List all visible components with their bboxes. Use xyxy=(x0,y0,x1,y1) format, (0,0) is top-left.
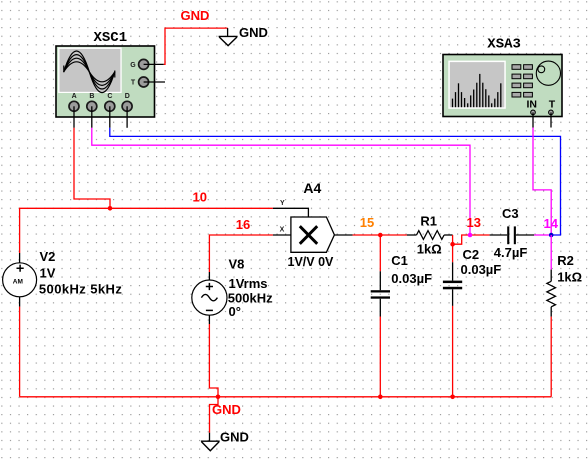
svg-text:GND: GND xyxy=(239,25,268,40)
wire net16: V8 to X input xyxy=(209,235,273,272)
wire lead R1 left xyxy=(407,234,417,236)
svg-text:AM: AM xyxy=(13,278,23,285)
svg-text:GND: GND xyxy=(220,429,249,444)
svg-text:500kHz 5kHz: 500kHz 5kHz xyxy=(39,282,122,297)
wire lead C2 top xyxy=(452,262,454,280)
wire net14: C3 to node 14 xyxy=(534,234,551,236)
svg-text:B: B xyxy=(89,93,94,100)
wire stub bottom ground xyxy=(209,433,211,442)
node 14 junction xyxy=(549,233,554,238)
ground (bottom) xyxy=(201,441,220,451)
AM source V2 xyxy=(3,249,123,297)
wire lead C1 bottom xyxy=(379,299,381,317)
svg-text:C2: C2 xyxy=(463,247,480,262)
svg-text:A4: A4 xyxy=(303,180,321,196)
svg-text:D: D xyxy=(125,93,130,100)
svg-text:R1: R1 xyxy=(420,213,437,228)
svg-text:0.03µF: 0.03µF xyxy=(461,262,502,277)
svg-text:16: 16 xyxy=(236,217,250,232)
wire stub XSA3 IN xyxy=(532,112,534,127)
wire net0: bottom rail xyxy=(20,396,552,398)
wire net0: V8 bottom to rail xyxy=(209,324,218,397)
wire net13: R1 jog to node 13 and C3 xyxy=(453,235,490,244)
svg-text:4.7µF: 4.7µF xyxy=(494,245,528,260)
wire lead C3 left xyxy=(490,234,508,236)
node junction rail C2 xyxy=(450,395,455,400)
node junction net10 xyxy=(108,206,113,211)
wire lead R1 right xyxy=(444,234,453,236)
wire lead R2 top xyxy=(550,270,552,282)
wire net0: V2 bottom to rail xyxy=(19,307,21,397)
wire stub V2 bottom xyxy=(19,297,21,307)
svg-text:GND: GND xyxy=(212,402,241,417)
svg-text:10: 10 xyxy=(193,189,207,204)
capacitor C1 xyxy=(371,253,432,299)
svg-text:T: T xyxy=(549,99,556,111)
svg-text:G: G xyxy=(130,62,136,69)
wire net10 main: V2 to Y lead xyxy=(20,208,273,253)
svg-text:0.03µF: 0.03µF xyxy=(391,271,432,286)
svg-text:V2: V2 xyxy=(40,249,56,264)
node 13 junction xyxy=(468,233,473,238)
svg-text:T: T xyxy=(131,80,136,87)
wire net0: C1 to rail xyxy=(379,317,381,397)
wire net14: node 14 to R2 xyxy=(550,235,552,270)
wire net15: C1 branch xyxy=(379,235,381,271)
svg-text:1Vrms: 1Vrms xyxy=(229,276,268,291)
wire net0: R2 to rail xyxy=(550,317,552,397)
wire net13 magenta: scope B to node 13 xyxy=(92,128,470,235)
svg-text:1V: 1V xyxy=(40,266,56,281)
svg-text:IN: IN xyxy=(527,99,538,111)
wire net0: C2 to rail xyxy=(452,306,454,397)
wire net14 magenta: XSA3 IN to node 14 xyxy=(533,128,551,236)
wire lead C3 right xyxy=(516,234,534,236)
svg-text:0°: 0° xyxy=(229,304,241,319)
oscilloscope XSC1 xyxy=(56,30,155,117)
svg-text:GND: GND xyxy=(181,8,210,23)
wire net10 red: G to top ground xyxy=(164,28,228,64)
wire net14 blue: scope C to node 14 xyxy=(110,128,561,235)
ground (top) xyxy=(219,36,238,45)
wire lead A4 output xyxy=(334,234,352,236)
wire lead A4 X xyxy=(273,234,291,236)
svg-text:1V/V 0V: 1V/V 0V xyxy=(288,255,335,269)
multiplier A4 xyxy=(280,180,335,269)
svg-text:14: 14 xyxy=(544,216,559,231)
capacitor C2 xyxy=(443,247,501,289)
svg-text:1kΩ: 1kΩ xyxy=(417,242,442,257)
spectrum analyzer XSA3 xyxy=(443,37,562,117)
wire stub scope G xyxy=(144,63,164,65)
node junction C2 tap xyxy=(450,242,455,247)
wire stub V2 top xyxy=(19,253,21,263)
AC source V8 xyxy=(192,257,273,320)
wire net0: rail to bottom ground xyxy=(210,397,219,433)
wire stub top ground xyxy=(227,28,229,36)
svg-text:V8: V8 xyxy=(229,257,245,272)
wire net10: scope A branch xyxy=(74,128,110,209)
svg-text:C3: C3 xyxy=(502,206,519,221)
wire stub V8 bottom xyxy=(208,315,210,324)
svg-text:13: 13 xyxy=(467,215,481,230)
svg-text:XSC1: XSC1 xyxy=(94,30,128,46)
node junction rail C1 xyxy=(378,395,383,400)
svg-text:XSA3: XSA3 xyxy=(487,37,521,53)
wire stub scope C xyxy=(109,106,111,128)
wire net15: A4 output to R1 xyxy=(353,234,407,236)
svg-text:R2: R2 xyxy=(557,253,574,268)
wire lead R2 bottom xyxy=(550,307,552,317)
resistor R2 xyxy=(547,253,582,307)
wire stub scope B xyxy=(91,106,93,128)
wire lead C1 top xyxy=(379,271,381,290)
wire stub scope D xyxy=(126,106,128,128)
wire lead C2 bottom xyxy=(452,289,454,306)
wire stub V8 top xyxy=(208,272,210,280)
node junction net15 C1 xyxy=(378,233,383,238)
svg-text:Y: Y xyxy=(280,200,285,207)
svg-text:15: 15 xyxy=(360,215,374,230)
svg-text:C: C xyxy=(107,93,112,100)
node junction rail GND xyxy=(216,395,221,400)
svg-text:1kΩ: 1kΩ xyxy=(557,270,582,285)
wire lead A4 Y xyxy=(273,208,309,217)
wire net13: C2 branch xyxy=(452,244,454,262)
svg-text:X: X xyxy=(280,227,285,234)
wire stub XSA3 T xyxy=(550,112,552,127)
svg-text:A: A xyxy=(72,93,77,100)
capacitor C3 xyxy=(494,206,528,260)
svg-text:C1: C1 xyxy=(391,253,408,268)
resistor R1 xyxy=(417,213,445,256)
wire stub scope A xyxy=(73,106,75,128)
wire stub scope T xyxy=(144,81,165,83)
